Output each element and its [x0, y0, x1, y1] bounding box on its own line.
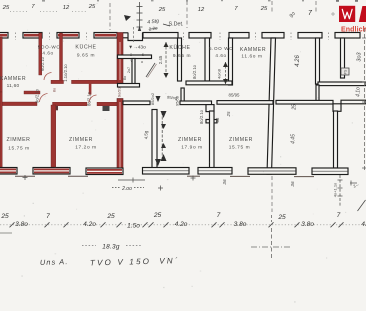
svg-text:8o/2.1o: 8o/2.1o	[192, 64, 197, 79]
entrance recess nook between P4 and P5	[123, 33, 143, 41]
wall pier top P3 (red unit)	[57, 33, 79, 39]
svg-text:8o: 8o	[53, 88, 57, 92]
middle wall seg far right	[341, 100, 366, 104]
red wall: left edge of unit	[0, 37, 2, 92]
chain in hall (kueche2)	[165, 42, 167, 78]
svg-text:KAMMER: KAMMER	[0, 76, 26, 82]
middle wall seg hall left stub	[123, 101, 150, 105]
window centre dashes in top wall gaps	[16, 33, 329, 41]
chain in Zimmer 17.90 with arrows	[161, 112, 163, 158]
tick below left sill	[23, 175, 28, 180]
red middle wall segment B	[53, 102, 88, 106]
middle wall seg under Kammer2	[217, 101, 273, 105]
door swing triangle at divider	[155, 159, 161, 166]
svg-text:11.6o m: 11.6o m	[241, 54, 262, 60]
red wall: WC+Kueche bottom	[51, 80, 64, 83]
svg-text:S.Det.: S.Det.	[169, 22, 184, 28]
wall Kueche2 left (stem of P5)	[178, 38, 182, 81]
dim chain below B7 stem	[338, 175, 343, 207]
wall stairwell2 right (stem of P10)	[341, 38, 345, 78]
wall stairwell2 left lower continuation	[316, 85, 319, 102]
door swing stroke in hall	[146, 63, 155, 77]
mid lines of black bottom piers	[143, 170, 348, 172]
svg-text:4.6o: 4.6o	[215, 53, 226, 58]
jog wall at Zimmer2 door	[206, 120, 217, 123]
wall pier top P8	[262, 33, 284, 39]
dimension ticks on bottom line	[10, 222, 344, 227]
svg-text:36: 36	[222, 179, 227, 185]
stairwell2 label box	[341, 68, 349, 75]
red fill bands in red-unit bottom piers	[0, 169, 122, 173]
svg-text:7: 7	[46, 213, 50, 220]
svg-text:9.65 m: 9.65 m	[173, 53, 191, 59]
wall pier top P4 (red unit)	[94, 33, 117, 39]
wall divider at x335	[334, 111, 338, 168]
step dimension chain	[137, 2, 143, 31]
svg-text:36: 36	[290, 181, 295, 187]
door swing arc Kammer red	[40, 94, 48, 103]
small marks right of B7 pier	[350, 181, 357, 186]
svg-text:4.6o: 4.6o	[42, 51, 53, 56]
centre-line cross bottom	[251, 176, 290, 258]
svg-text:2.oo: 2.oo	[121, 186, 132, 192]
bottom pier B5	[198, 168, 232, 175]
wall pier top P5	[143, 33, 178, 39]
window sills bottom	[15, 175, 314, 177]
wall hall right lower link	[181, 88, 184, 102]
bottom dimension dotted line	[0, 224, 366, 226]
wall pier top P10	[335, 33, 360, 39]
red middle wall segment C	[97, 102, 117, 106]
red left wall of Zimmer 15.75	[0, 92, 2, 168]
red fill bands inside red-unit piers	[0, 34, 116, 37]
arrow head on step chain	[138, 26, 141, 31]
bottom pier B6	[248, 168, 296, 175]
svg-text:5.OO WC: 5.OO WC	[209, 46, 233, 51]
svg-text:5OO-WC: 5OO-WC	[38, 45, 61, 50]
red wall: WC/Kueche wall S2	[60, 33, 63, 82]
wall pier top P6	[189, 33, 211, 39]
red wall: Kammer bottom niche	[24, 91, 40, 94]
door swing arc corridor red	[89, 95, 97, 103]
svg-text:2o7: 2o7	[127, 67, 131, 73]
tick below B4 window	[191, 176, 196, 181]
svg-text:25: 25	[106, 213, 115, 220]
entrance door centre line	[133, 27, 135, 42]
svg-text:KÜCHE: KÜCHE	[169, 44, 190, 51]
svg-text:12: 12	[198, 7, 205, 13]
handwritten annotation line	[40, 256, 180, 267]
svg-text:8o: 8o	[123, 76, 127, 80]
svg-text:▼→43o: ▼→43o	[128, 45, 146, 51]
svg-text:12: 12	[63, 5, 70, 11]
extra hall marks	[53, 67, 132, 92]
chain in WC2	[225, 62, 227, 84]
entrance arrow mark	[124, 15, 131, 21]
svg-text:4.1o: 4.1o	[356, 87, 362, 97]
svg-text:8o/2.1o: 8o/2.1o	[87, 91, 92, 106]
wall pier top P9	[298, 33, 322, 39]
wall Zimmer 17.90 right divider	[152, 110, 157, 169]
svg-text:4o/o8: 4o/o8	[217, 68, 222, 79]
svg-text:17.9o m: 17.9o m	[181, 145, 203, 151]
svg-text:15.75 m: 15.75 m	[8, 146, 30, 152]
scanner specks top edge	[42, 0, 358, 2]
wall WC2 | Kammer2 (stem of P7)	[229, 38, 233, 85]
svg-text:25: 25	[260, 6, 268, 12]
red middle wall segment A	[0, 102, 37, 106]
svg-text:Endlich Z: Endlich Z	[341, 27, 366, 34]
bottom pier B1 (red)	[0, 168, 17, 175]
svg-text:9o/2.1o: 9o/2.1o	[35, 88, 40, 103]
wall Kueche3 bottom	[318, 82, 366, 86]
wall pier top P2 (red unit)	[23, 33, 42, 39]
faint top chain dots	[10, 11, 86, 13]
svg-text:2.45: 2.45	[158, 55, 163, 64]
svg-text:4.26: 4.26	[295, 55, 301, 67]
wall Kammer2 right / Zimmer divider (skewed)	[267, 38, 276, 174]
svg-text:1.5o: 1.5o	[127, 223, 140, 230]
plus mark left of logo	[331, 12, 335, 16]
door leaf block at middle wall B	[53, 106, 59, 111]
svg-text:25: 25	[2, 5, 10, 11]
closet top wall	[118, 55, 152, 59]
svg-text:4.5g: 4.5g	[144, 130, 149, 139]
middle wall seg right of Kammer2	[276, 100, 333, 104]
logo W square	[339, 6, 355, 22]
svg-text:9.65 m: 9.65 m	[77, 53, 95, 59]
svg-text:ZIMMER: ZIMMER	[69, 137, 93, 143]
svg-text:3o3: 3o3	[357, 51, 363, 61]
svg-text:ZIMMER: ZIMMER	[6, 137, 30, 143]
svg-text:95/og: 95/og	[167, 95, 177, 101]
diagonal mark bottom right	[358, 200, 366, 211]
wall pier top P7	[229, 33, 249, 39]
svg-text:25: 25	[0, 213, 9, 220]
closet divider wall	[132, 59, 135, 85]
total dim 18.39	[102, 244, 120, 251]
svg-text:15.75 m: 15.75 m	[229, 145, 251, 151]
svg-text:85/95: 85/95	[229, 93, 241, 98]
logo A triangle fragment	[359, 6, 366, 22]
svg-text:11.60: 11.60	[7, 83, 20, 89]
wall Kueche2+WC2 bottom	[186, 81, 232, 85]
svg-text:KAMMER: KAMMER	[240, 47, 266, 53]
svg-text:18.3g: 18.3g	[102, 244, 120, 251]
wall Kueche2 | WC2 (stem of P6)	[205, 38, 210, 81]
svg-text:4o+1.1o: 4o+1.1o	[333, 182, 338, 197]
svg-text:4.45: 4.45	[291, 134, 297, 144]
svg-text:25: 25	[226, 111, 231, 117]
bottom pier B4	[143, 168, 190, 175]
red Zimmer divider wall (15.75 | 17.20)	[51, 105, 56, 168]
svg-text:25: 25	[158, 7, 166, 13]
svg-text:25: 25	[153, 212, 162, 219]
svg-text:8o/2.1o: 8o/2.1o	[199, 109, 204, 124]
svg-text:6o/2.1o: 6o/2.1o	[40, 56, 45, 71]
red wall: WC left wall S1	[39, 33, 42, 75]
closet bottom wall	[118, 84, 140, 88]
svg-text:88: 88	[215, 117, 220, 122]
svg-text:ZIMMER: ZIMMER	[178, 137, 202, 143]
svg-text:25: 25	[292, 104, 298, 111]
door box in zimmer band right	[167, 261, 169, 263]
svg-text:PS: PS	[344, 69, 348, 74]
wall Zimmer2 divider at x211	[210, 111, 215, 168]
bottom pier B2 (red)	[33, 168, 70, 175]
door block hanging at x 206	[206, 105, 214, 112]
svg-text:ZIMMER: ZIMMER	[229, 137, 253, 143]
wall pier top-left (red unit)	[0, 33, 8, 39]
bottom pier B7	[312, 168, 348, 175]
bottom pier B3 (red)	[86, 168, 123, 175]
svg-text:85/2o2: 85/2o2	[150, 92, 155, 105]
svg-text:Uns A.: Uns A.	[40, 257, 69, 267]
logo W glyph	[342, 9, 352, 18]
door leaf block at middle wall C	[103, 106, 110, 111]
svg-text:25: 25	[88, 4, 96, 10]
red door jamb stub	[89, 84, 92, 95]
door block hanging at x 333	[333, 104, 341, 112]
door swing arc WC red	[44, 73, 52, 81]
wall stairwell2 left (stem of P9)	[316, 38, 320, 84]
svg-text:25: 25	[277, 214, 286, 221]
svg-text:17.2o m: 17.2o m	[75, 145, 97, 151]
svg-text:7: 7	[337, 212, 341, 219]
small hall marks	[130, 52, 145, 64]
middle wall seg to Zimmer 17.90	[180, 101, 212, 105]
svg-text:7: 7	[217, 212, 221, 219]
svg-text:KÜCHE: KÜCHE	[75, 44, 96, 51]
